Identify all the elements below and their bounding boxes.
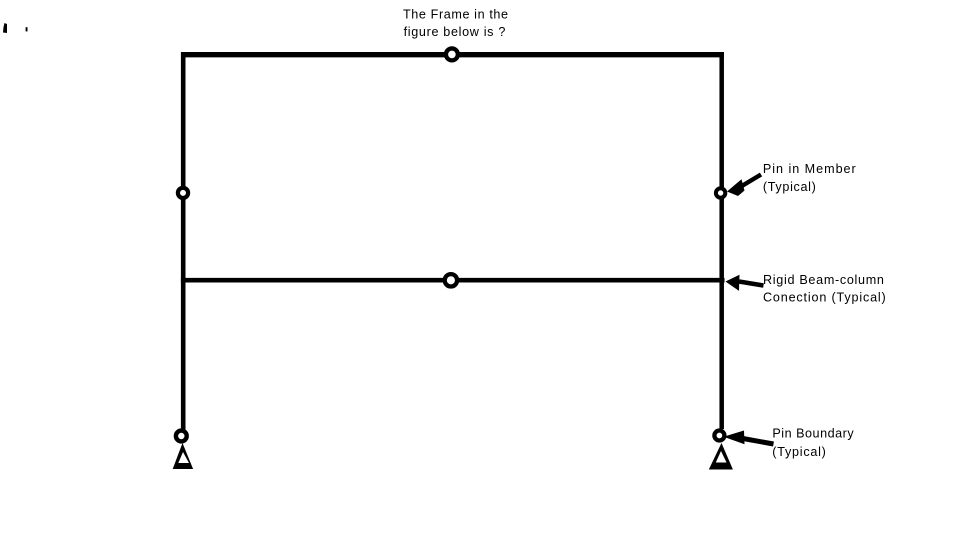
top beam [181, 52, 724, 57]
svg-text:Conection (Typical): Conection (Typical) [763, 291, 887, 305]
svg-text:(Typical): (Typical) [763, 180, 817, 194]
stray mark left [3, 23, 7, 33]
right column [719, 52, 724, 429]
label rigid-connection [763, 273, 887, 305]
svg-text:Pin Boundary: Pin Boundary [772, 427, 854, 441]
pin top beam [446, 48, 458, 60]
stray mark right [26, 27, 28, 31]
middle beam [181, 278, 725, 283]
svg-text:figure below is ?: figure below is ? [404, 25, 506, 39]
right support triangle [709, 443, 733, 470]
label pin-in-member [763, 162, 857, 194]
arrow pin-boundary [724, 431, 774, 445]
pin middle beam [445, 274, 457, 286]
pin left column [178, 188, 188, 198]
pin right column [716, 188, 725, 197]
arrow rigid-connection [726, 275, 764, 291]
svg-text:(Typical): (Typical) [772, 445, 826, 459]
svg-text:Pin in Member: Pin in Member [763, 162, 857, 176]
left support triangle [173, 443, 193, 469]
pin right support [714, 431, 724, 441]
left column [181, 52, 186, 430]
label pin-boundary [772, 427, 854, 460]
arrow pin-in-member [727, 175, 761, 197]
svg-text:The Frame in the: The Frame in the [403, 7, 509, 21]
title text [403, 7, 509, 39]
svg-text:Rigid Beam-column: Rigid Beam-column [763, 273, 885, 287]
pin left support [176, 431, 187, 442]
